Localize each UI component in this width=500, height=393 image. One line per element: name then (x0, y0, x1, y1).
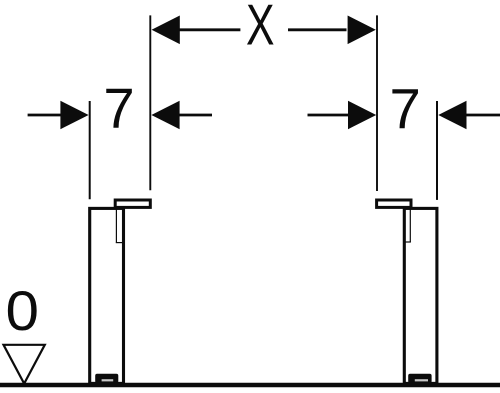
svg-text:0: 0 (6, 280, 40, 342)
svg-text:X: X (246, 0, 275, 58)
svg-text:7: 7 (103, 77, 134, 140)
svg-text:7: 7 (390, 78, 421, 141)
